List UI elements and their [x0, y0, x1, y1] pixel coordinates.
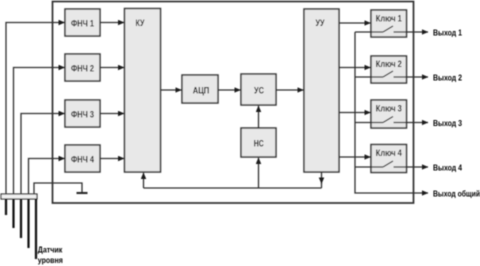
svg-text:Выход 2: Выход 2: [433, 73, 462, 83]
wire FNCH3 to KU: [100, 113, 124, 115]
wire UU to Klyuch3 control: [339, 112, 371, 114]
svg-text:Ключ 1: Ключ 1: [376, 13, 403, 24]
svg-text:Выход 1: Выход 1: [433, 28, 462, 38]
svg-text:Ключ 4: Ключ 4: [376, 148, 403, 159]
block Klyuch1 (Ключ 1 switch): [371, 10, 407, 37]
wire US to UU: [276, 89, 304, 91]
wire ADC to US: [218, 89, 241, 91]
wire NS to US: [258, 106, 260, 128]
block UU (УУ control unit): [304, 9, 339, 172]
block ADC (АЦП): [182, 75, 218, 103]
block FNCH2 (ФНЧ 2): [65, 54, 100, 81]
svg-text:АЦП: АЦП: [193, 85, 210, 96]
wire bus up to NS: [258, 158, 260, 188]
outer enclosure box: [53, 2, 414, 204]
switch symbol K3: [355, 117, 407, 123]
block KU (КУ amplifier): [125, 9, 161, 173]
svg-text:ФНЧ 1: ФНЧ 1: [71, 18, 95, 29]
switch symbol K1: [355, 26, 407, 32]
wire KU to ADC: [161, 89, 182, 91]
switch symbol K4: [355, 161, 407, 167]
svg-text:КУ: КУ: [136, 18, 146, 29]
level sensor header bar: [1, 194, 37, 199]
svg-text:ФНЧ 3: ФНЧ 3: [71, 109, 94, 120]
sensor electrode 4: [27, 199, 29, 248]
svg-text:Выход 4: Выход 4: [433, 163, 462, 173]
wire UU to Klyuch1 control: [339, 22, 371, 24]
wire Klyuch2 output: [407, 76, 428, 78]
wire UU down to control bus: [321, 172, 323, 184]
sensor electrode 1: [5, 199, 7, 215]
block Klyuch3 (Ключ 3 switch): [371, 100, 407, 128]
block FNCH4 (ФНЧ 4): [65, 145, 100, 172]
wire sensor to FNCH3: [21, 114, 65, 195]
wire FNCH1 to KU: [100, 22, 124, 24]
control bus horizontal: [144, 187, 322, 189]
sensor electrode 3: [20, 199, 22, 238]
svg-text:уровня: уровня: [38, 255, 63, 265]
block US (УС): [241, 74, 276, 105]
ground symbol: [77, 192, 88, 194]
sensor caption: Датчик уровня: [38, 244, 63, 265]
svg-text:Датчик: Датчик: [38, 244, 63, 254]
common bus vertical to Vyhod obschiy: [355, 32, 428, 193]
wire FNCH2 to KU: [100, 67, 124, 69]
svg-text:ФНЧ 2: ФНЧ 2: [71, 63, 94, 74]
svg-text:ФНЧ 4: ФНЧ 4: [71, 154, 95, 165]
wire sensor to FNCH2: [14, 68, 65, 195]
svg-text:УС: УС: [254, 85, 264, 96]
wire FNCH4 to KU: [100, 158, 124, 160]
wire bus up to KU: [143, 173, 145, 188]
svg-text:Выход общий: Выход общий: [433, 189, 480, 199]
sensor electrode 5: [35, 199, 37, 259]
block FNCH1 (ФНЧ 1): [65, 9, 100, 36]
svg-text:УУ: УУ: [316, 18, 326, 29]
wire Klyuch4 output: [407, 166, 428, 168]
svg-text:Ключ 3: Ключ 3: [376, 103, 402, 114]
svg-text:Ключ 2: Ключ 2: [376, 59, 402, 70]
wire Klyuch1 output: [407, 31, 428, 33]
block Klyuch4 (Ключ 4 switch): [371, 145, 407, 173]
svg-text:НС: НС: [254, 138, 264, 149]
wire UU to Klyuch2 control: [339, 67, 371, 69]
svg-text:Выход 3: Выход 3: [433, 118, 462, 128]
wire sensor to FNCH1: [6, 23, 65, 195]
sensor electrode 2: [12, 199, 14, 228]
wire sensor to ground: [34, 183, 82, 194]
block FNCH3 (ФНЧ 3): [65, 100, 100, 127]
block NS (НС): [241, 128, 276, 157]
wire UU to Klyuch4 control: [339, 156, 371, 158]
wire sensor to FNCH4: [29, 159, 65, 195]
block Klyuch2 (Ключ 2 switch): [371, 56, 407, 83]
wire Klyuch3 output: [407, 122, 428, 124]
switch symbol K2: [355, 71, 407, 77]
